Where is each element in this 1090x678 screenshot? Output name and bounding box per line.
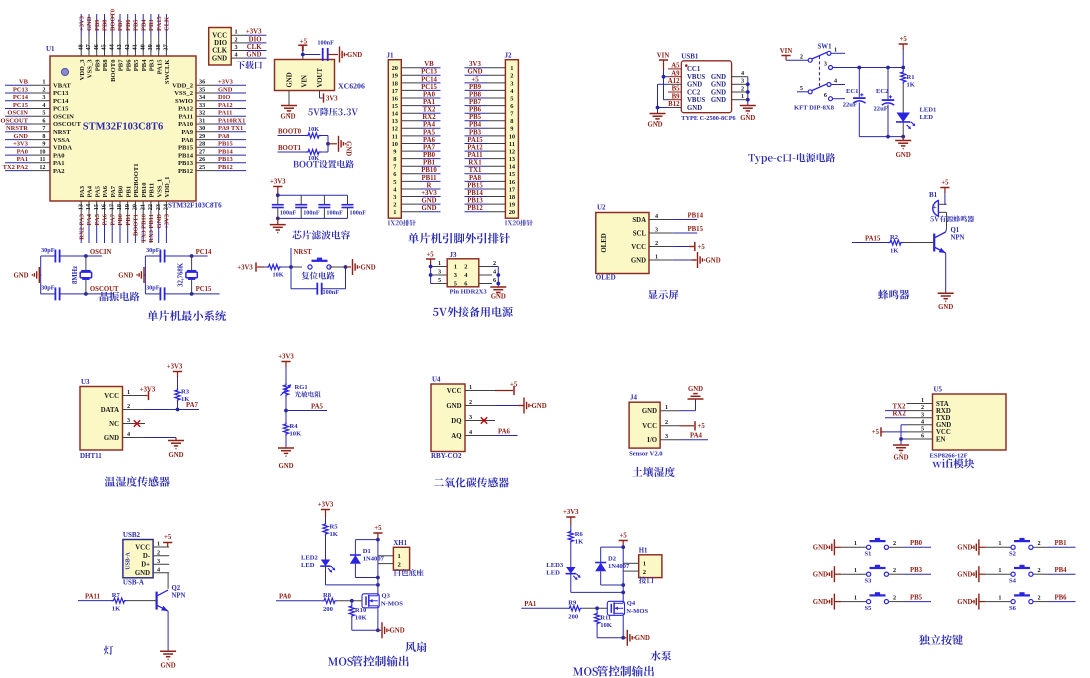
U5 pin 6 EN	[907, 438, 933, 440]
SW1 pole 2 wire	[797, 91, 808, 93]
caption jing zhen dian lu	[100, 292, 140, 302]
svg-text:6: 6	[493, 277, 496, 284]
connector H1 body	[639, 555, 662, 578]
no connect X at U3 pin3	[123, 423, 135, 425]
svg-text:PA15: PA15	[156, 16, 163, 31]
svg-text:PB6: PB6	[469, 107, 482, 114]
svg-text:VCC: VCC	[642, 423, 657, 430]
U1 top pin 39 PB3 net PB3	[150, 36, 152, 56]
svg-text:GND: GND	[706, 257, 721, 264]
svg-text:2: 2	[800, 53, 803, 60]
capacitor 100nF filter 4	[347, 195, 349, 205]
svg-text:2: 2	[893, 540, 896, 547]
svg-text:USB1: USB1	[681, 53, 699, 61]
svg-text:PB1: PB1	[1055, 540, 1068, 547]
svg-text:19: 19	[124, 204, 131, 210]
svg-text:VSS_1: VSS_1	[156, 179, 163, 198]
svg-text:+5: +5	[164, 534, 172, 541]
U1 top pin 44 BOOT0 net BOOT0	[111, 36, 113, 56]
svg-text:STM32F103C8T6: STM32F103C8T6	[168, 202, 222, 210]
svg-text:PB1: PB1	[125, 214, 132, 226]
caption feng ming qi	[878, 290, 909, 300]
caption 5V wai jie bei yong dian yuan	[433, 308, 447, 316]
svg-text:PB8: PB8	[469, 91, 482, 98]
svg-text:A12: A12	[668, 78, 680, 85]
svg-text:PA8: PA8	[218, 133, 230, 140]
J2 pin 5 net PB8	[487, 97, 505, 99]
svg-text:TYPE C-2500-8CP6: TYPE C-2500-8CP6	[681, 115, 735, 122]
svg-text:3: 3	[921, 411, 924, 418]
sensor U3 DHT11 body	[80, 387, 123, 451]
svg-text:10: 10	[509, 133, 515, 140]
svg-text:GND: GND	[446, 403, 461, 410]
connector J1 body	[388, 60, 401, 219]
H1 pin wires	[623, 562, 639, 564]
U5 pin 5 VCC	[907, 431, 933, 433]
svg-text:VCC: VCC	[936, 429, 951, 436]
svg-text:GND: GND	[218, 86, 233, 93]
svg-text:+5: +5	[698, 244, 706, 251]
svg-text:2: 2	[157, 549, 160, 556]
svg-text:39: 39	[147, 44, 154, 50]
svg-text:Pin HDR2X3: Pin HDR2X3	[450, 289, 488, 296]
wire bottom rail type-c	[859, 136, 903, 138]
svg-text:+3V3: +3V3	[167, 363, 183, 370]
svg-text:2: 2	[1038, 567, 1041, 574]
svg-text:44: 44	[108, 44, 115, 50]
svg-text:USB2: USB2	[123, 531, 141, 539]
svg-text:BOOT0: BOOT0	[110, 59, 117, 82]
svg-text:1: 1	[921, 397, 924, 404]
J2 footprint label 1X20 pai zhen	[505, 220, 520, 225]
net PC15	[192, 293, 220, 295]
svg-text:2: 2	[235, 36, 238, 43]
svg-text:14: 14	[85, 204, 92, 210]
net RX2 at U5 TXD	[885, 417, 907, 419]
SW1 contact 6	[829, 97, 833, 101]
net PA4 at J4	[680, 439, 709, 441]
J1 pin 19 net PC13	[401, 74, 419, 76]
J2 pin 14 net RX1	[487, 165, 505, 167]
crystal left rail 8MHz	[40, 256, 42, 294]
svg-text:1: 1	[854, 594, 857, 601]
power +5 at U2	[673, 246, 689, 248]
svg-text:5: 5	[42, 110, 45, 117]
svg-text:DIO: DIO	[214, 40, 227, 47]
J4 pin 1 GND	[660, 410, 679, 412]
U1 left pin 11 PA1 net PA1	[30, 162, 50, 164]
svg-text:VCC: VCC	[135, 544, 150, 551]
svg-text:GND: GND	[957, 545, 972, 552]
svg-text:1: 1	[665, 404, 668, 411]
wire gate node Q3	[337, 600, 363, 602]
U1 left pin 2 PC13 net PC13	[30, 92, 50, 94]
svg-text:PB6: PB6	[1055, 594, 1068, 601]
U4 pin 1 VCC	[465, 390, 495, 392]
svg-text:24: 24	[163, 204, 170, 210]
svg-text:PB10: PB10	[141, 182, 148, 198]
svg-text:D2: D2	[608, 556, 617, 563]
svg-text:TX2: TX2	[423, 107, 436, 114]
U1 left pin 5 OSCIN net OSCIN	[30, 115, 50, 117]
svg-text:OLED: OLED	[596, 274, 616, 282]
svg-text:LED: LED	[301, 562, 315, 569]
svg-text:PB5: PB5	[469, 114, 482, 121]
svg-text:GND: GND	[14, 133, 29, 140]
svg-text:PA4: PA4	[86, 213, 93, 225]
svg-text:PB4: PB4	[141, 59, 148, 71]
svg-text:OSCIN: OSCIN	[53, 114, 74, 121]
wire VIN to VBUS pins	[663, 70, 665, 100]
svg-text:4: 4	[42, 102, 45, 109]
svg-text:GND: GND	[711, 74, 726, 81]
svg-text:43: 43	[116, 44, 123, 50]
U1 left pin 9 VDDA net +3V3	[30, 146, 50, 148]
caption deng	[104, 646, 114, 655]
net PB15 at U2	[673, 232, 698, 234]
svg-text:VIN: VIN	[657, 53, 670, 60]
crystal left rail 32768	[144, 256, 146, 294]
svg-text:30: 30	[199, 125, 205, 132]
svg-text:3: 3	[454, 272, 457, 279]
svg-text:1K: 1K	[330, 531, 339, 538]
svg-text:+3V3: +3V3	[278, 353, 294, 360]
U1 right pin 26 PB13 net PB13	[196, 162, 216, 164]
svg-text:GND: GND	[893, 455, 908, 462]
svg-text:PA0: PA0	[423, 91, 436, 98]
svg-text:J1: J1	[387, 51, 395, 59]
XH1 pin wires	[378, 555, 394, 557]
J2 pin 4 net PB9	[487, 89, 505, 91]
svg-text:STM32F103C8T6: STM32F103C8T6	[83, 122, 164, 133]
svg-text:25: 25	[199, 164, 205, 171]
J2 pin 18 net PB14	[487, 196, 505, 198]
resistor R4 10K	[283, 422, 288, 436]
svg-text:1: 1	[469, 384, 472, 391]
svg-text:H1: H1	[639, 548, 648, 555]
svg-text:12: 12	[39, 164, 45, 171]
svg-text:30pF: 30pF	[146, 247, 160, 254]
capacitor 30pF bottom 32768	[145, 293, 160, 295]
USB1 left pin B5 CC2	[668, 91, 681, 93]
svg-text:RBY-CO2: RBY-CO2	[431, 452, 462, 460]
svg-text:3: 3	[393, 194, 396, 201]
svg-text:GND: GND	[957, 599, 972, 606]
caption du li an jian	[919, 635, 963, 645]
svg-text:4: 4	[834, 78, 837, 85]
svg-text:TXD: TXD	[936, 415, 950, 422]
svg-text:PB8: PB8	[102, 59, 109, 71]
svg-text:PA7: PA7	[110, 185, 117, 197]
svg-text:GND: GND	[957, 572, 972, 579]
svg-text:PA5: PA5	[94, 185, 101, 197]
svg-text:VB: VB	[424, 61, 434, 68]
svg-text:3V3: 3V3	[326, 95, 338, 102]
USB1 left pin A9 VBUS	[668, 76, 681, 78]
caption Type-c kou dian yuan dian lu	[748, 154, 782, 164]
svg-text:PA6: PA6	[498, 428, 511, 435]
svg-text:11: 11	[392, 133, 398, 140]
svg-text:NRST: NRST	[53, 129, 71, 136]
diode D2 1N4007	[601, 546, 624, 548]
U1 top pin 48 VDD_3 net +3V3	[80, 36, 82, 56]
SW1 lever 1	[812, 52, 827, 59]
SW1 lever 2	[812, 84, 827, 91]
svg-text:18: 18	[116, 204, 123, 210]
svg-text:26: 26	[199, 156, 205, 163]
svg-text:GND: GND	[631, 257, 646, 264]
svg-text:R4: R4	[290, 423, 299, 430]
buzzer comment 5V you yuan feng ming qi	[930, 216, 939, 221]
J2 pin 19 net PB13	[487, 203, 505, 205]
J2 pin 7 net PB6	[487, 112, 505, 114]
svg-text:GND: GND	[813, 572, 828, 579]
svg-text:PC15: PC15	[196, 286, 212, 293]
svg-text:PB13: PB13	[178, 160, 194, 167]
svg-text:2: 2	[1038, 540, 1041, 547]
USB2 pin 3 D+	[153, 563, 169, 565]
J2 pin 11 net PA15	[487, 143, 505, 145]
svg-text:J2: J2	[505, 51, 513, 59]
svg-text:CLK: CLK	[247, 44, 262, 51]
sensor U4 RBY-CO2 body	[431, 384, 465, 452]
svg-text:Q4: Q4	[627, 600, 636, 607]
svg-text:PB7: PB7	[469, 99, 482, 106]
svg-text:18: 18	[392, 80, 398, 87]
ground at U2	[673, 259, 692, 261]
svg-text:STA: STA	[936, 401, 949, 408]
svg-text:PB14: PB14	[688, 213, 704, 220]
svg-text:4: 4	[655, 213, 658, 220]
svg-text:1: 1	[998, 594, 1001, 601]
USB1 left pin B9 VBUS	[668, 99, 681, 101]
J1 pin 4 net R	[401, 188, 419, 190]
svg-text:PB7: PB7	[118, 59, 125, 71]
crystal 32768	[190, 254, 194, 258]
ground USB1 left	[650, 113, 666, 115]
ground photoresistor	[285, 436, 287, 448]
caption dan pian ji yin jiao wai yin pai zhen	[408, 233, 510, 244]
svg-text:PA10: PA10	[178, 121, 194, 128]
buzzer pins	[938, 203, 946, 205]
svg-text:1: 1	[655, 253, 658, 260]
net PC14	[192, 255, 208, 257]
svg-text:PB13: PB13	[467, 198, 483, 205]
svg-text:3: 3	[438, 269, 441, 276]
ground type-c rail	[902, 137, 904, 141]
svg-text:16: 16	[509, 179, 516, 186]
U1 left pin 12 PA2 net TX2 PA2	[30, 170, 50, 172]
resistor R1 1K	[902, 68, 904, 71]
svg-text:21: 21	[139, 204, 146, 210]
svg-text:RXD: RXD	[936, 408, 951, 415]
svg-text:PC13: PC13	[421, 69, 437, 76]
svg-text:PC14: PC14	[421, 76, 437, 83]
svg-text:6: 6	[921, 433, 924, 440]
U5 pin 4 GND	[907, 424, 933, 426]
caption BOOT she zhi dian lu	[293, 161, 318, 168]
svg-text:PB10: PB10	[421, 167, 437, 174]
svg-text:GND: GND	[711, 89, 726, 96]
power +3V3 at U3 VCC	[145, 395, 148, 397]
svg-text:2: 2	[464, 263, 467, 270]
svg-text:BOOT1: BOOT1	[278, 145, 302, 152]
svg-text:47: 47	[85, 44, 92, 50]
ground at BOOT divider	[338, 136, 340, 152]
USB1 right pin 3 GND	[732, 83, 747, 85]
svg-text:GND: GND	[390, 628, 405, 635]
svg-text:2: 2	[1038, 594, 1041, 601]
svg-text:GND: GND	[168, 452, 183, 459]
ground above J4	[680, 410, 696, 412]
svg-text:PA11: PA11	[85, 593, 101, 600]
wire USB1 GND pins to ground	[658, 83, 669, 85]
svg-text:GND: GND	[936, 422, 951, 429]
net TX2 at U5 RXD	[885, 410, 907, 412]
svg-text:PB0: PB0	[423, 152, 436, 159]
svg-text:200: 200	[568, 614, 579, 621]
svg-text:GND: GND	[813, 545, 828, 552]
svg-text:8: 8	[42, 133, 45, 140]
display U2 OLED body	[596, 213, 649, 274]
svg-text:13: 13	[392, 118, 398, 125]
svg-text:PB4: PB4	[469, 122, 482, 129]
svg-text:S2: S2	[1009, 551, 1017, 558]
svg-text:S3: S3	[865, 578, 873, 585]
svg-text:3: 3	[510, 80, 513, 87]
U1 bottom pin 17 PA7 net PA7	[111, 201, 113, 221]
svg-text:2: 2	[469, 399, 472, 406]
svg-text:+3V3: +3V3	[421, 190, 437, 197]
svg-text:10K: 10K	[290, 431, 303, 438]
U1 right pin 25 PB12 net PB12	[196, 170, 216, 172]
svg-text:OLED: OLED	[601, 233, 608, 252]
svg-text:1: 1	[854, 567, 857, 574]
svg-text:5: 5	[800, 85, 803, 92]
U1 right pin 30 PA9 net PA9 TX1	[196, 131, 216, 133]
svg-text:1: 1	[854, 540, 857, 547]
svg-text:PA1: PA1	[524, 601, 537, 608]
svg-text:+3V3: +3V3	[78, 15, 85, 31]
capacitor 100nF reset	[290, 267, 292, 289]
svg-text:GND: GND	[421, 205, 436, 212]
svg-text:PA11: PA11	[468, 152, 484, 159]
LED LED3	[570, 544, 572, 568]
J1 pin 16 net PA0	[401, 97, 419, 99]
svg-text:27: 27	[199, 149, 205, 156]
caption xiazaikou	[236, 61, 261, 69]
caption fu wei dian lu	[302, 272, 335, 280]
svg-text:1K: 1K	[112, 606, 121, 613]
svg-text:100nF: 100nF	[280, 210, 297, 217]
svg-text:PC15: PC15	[421, 84, 437, 91]
svg-text:PB0: PB0	[117, 214, 124, 226]
svg-text:1K: 1K	[907, 82, 916, 89]
svg-text:OSCIN: OSCIN	[90, 249, 112, 256]
svg-text:22uF: 22uF	[843, 102, 857, 109]
U1 left pin 3 PC14 net PC14	[30, 100, 50, 102]
svg-text:PA9 TX1: PA9 TX1	[218, 125, 243, 132]
svg-text:SWCLK: SWCLK	[164, 59, 171, 84]
caption wen shi du chuan gan qi	[105, 476, 170, 486]
caption feng shan	[405, 642, 426, 652]
svg-text:PB5: PB5	[133, 19, 140, 31]
capacitor EC2 22uF	[887, 68, 889, 100]
caption er yang hua tan chuan gan qi	[434, 477, 509, 487]
J1 pin 12 net PA4	[401, 127, 419, 129]
svg-text:Sensor V2.0: Sensor V2.0	[629, 451, 663, 458]
svg-text:100nF: 100nF	[323, 289, 340, 296]
svg-text:VBUS: VBUS	[687, 74, 705, 81]
net OSCOUT	[86, 293, 114, 295]
U1 bottom pin 15 PA5 net PA5	[96, 201, 98, 221]
svg-text:S4: S4	[1009, 578, 1017, 585]
J4 pin 3 I/O	[660, 439, 679, 441]
J2 pin 16 net PA8	[487, 180, 505, 182]
capacitor 100nF filter 3	[323, 195, 325, 205]
connector download port body	[209, 28, 232, 66]
ground Q3	[378, 629, 381, 631]
svg-text:VDD_2: VDD_2	[172, 83, 194, 90]
connector XH1 body	[393, 547, 409, 570]
svg-text:4: 4	[157, 566, 160, 573]
J2 pin 12 net PA12	[487, 150, 505, 152]
svg-text:20: 20	[509, 209, 515, 216]
U1 left pin 4 PC15 net PC15	[30, 108, 50, 110]
U5 pin 1 STA	[907, 403, 933, 405]
J1 footprint label 1X20 pai zhen	[388, 220, 403, 225]
U1 top pin 40 PB4 net PB4	[142, 36, 144, 56]
svg-text:PB3: PB3	[469, 129, 482, 136]
svg-text:RX2: RX2	[422, 114, 436, 121]
svg-text:PA4: PA4	[87, 185, 94, 197]
svg-text:5: 5	[921, 426, 924, 433]
svg-text:4: 4	[921, 418, 924, 425]
ground at U5	[893, 444, 909, 446]
caption shui beng	[650, 651, 671, 661]
svg-text:+5: +5	[620, 533, 628, 540]
svg-text:PC13: PC13	[53, 90, 69, 97]
svg-text:DIO: DIO	[249, 36, 262, 43]
svg-text:KFT DIP-8X8: KFT DIP-8X8	[794, 105, 835, 112]
svg-text:37: 37	[163, 44, 170, 50]
op-amp U1 MCU STM32F103C8T6 body	[50, 56, 196, 201]
resistor 10K BOOT0	[306, 133, 321, 138]
resistor 10K BOOT1	[306, 149, 321, 154]
svg-text:+3V3: +3V3	[237, 265, 253, 272]
svg-text:LED: LED	[920, 114, 934, 121]
svg-text:5: 5	[393, 179, 396, 186]
svg-text:35: 35	[199, 86, 205, 93]
svg-text:PA15: PA15	[467, 137, 483, 144]
svg-text:30pF: 30pF	[41, 285, 55, 292]
resistor R11 10K	[596, 608, 598, 611]
svg-text:3: 3	[127, 417, 130, 424]
svg-text:1: 1	[998, 567, 1001, 574]
ground J3	[490, 286, 506, 288]
capacitor EC1 22uF	[858, 68, 860, 98]
svg-text:DATA: DATA	[101, 407, 119, 414]
svg-text:200: 200	[323, 606, 334, 613]
svg-text:GND: GND	[687, 82, 702, 89]
U1 right pin 27 PB14 net PB14	[196, 154, 216, 156]
wire +5 rail	[902, 50, 904, 68]
XC6206 VOUT to 3V3	[319, 91, 321, 99]
svg-text:+5: +5	[872, 429, 880, 436]
svg-text:GND: GND	[532, 403, 547, 410]
U4 pin 4 AQ	[465, 435, 495, 437]
svg-text:11: 11	[509, 141, 515, 148]
